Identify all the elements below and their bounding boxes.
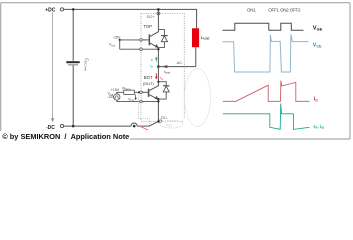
driver box dashed bottom edge — [141, 120, 184, 122]
terminal TOP gate — [140, 39, 143, 42]
svg-text:DC+: DC+ — [147, 14, 156, 19]
wire load bottom lead — [195, 47, 197, 66]
wire gate loop dashed drop — [149, 119, 151, 126]
node BOT diode top junction — [157, 81, 159, 83]
svg-text:VCE: VCE — [166, 123, 172, 128]
terminal TOP aux emitter — [140, 48, 143, 51]
annotation VCE loop ellipse — [185, 69, 211, 127]
svg-text:CDC-link: CDC-link — [84, 58, 90, 71]
trace VGE — [223, 23, 304, 30]
trace IC — [223, 81, 310, 102]
node TOP aux emitter junction — [157, 48, 159, 50]
wire TOP collector — [157, 9, 159, 31]
svg-text:BOT: BOT — [144, 75, 153, 80]
driver box dashed right edge — [183, 13, 185, 117]
terminal DC- — [159, 120, 162, 123]
svg-text:iF: iF — [151, 58, 154, 63]
node gate sense junction — [138, 91, 140, 93]
annotation VCE small ellipse — [160, 120, 183, 128]
terminal BOT aux emitter — [140, 100, 143, 103]
svg-text:ON1: ON1 — [247, 7, 257, 12]
frame left border — [0, 3, 2, 131]
frame bottom border — [130, 138, 350, 140]
svg-text:+15V: +15V — [111, 88, 120, 92]
svg-text:Iload: Iload — [164, 70, 170, 75]
svg-text:-DC: -DC — [46, 125, 55, 131]
arrow iG gate current (red) — [142, 126, 148, 129]
wire -DC rail to emitter — [137, 121, 158, 126]
frame right border — [349, 3, 351, 139]
wire VDC arrow line — [52, 13, 54, 121]
svg-text:OFF1: OFF1 — [268, 7, 279, 12]
svg-text:Lload: Lload — [201, 35, 210, 41]
trace -iF iR — [223, 104, 310, 130]
wire TOP driver loop — [119, 40, 121, 49]
node TOP driver output — [119, 39, 121, 41]
wire +DC rail — [64, 9, 197, 28]
node AC junction — [157, 65, 160, 68]
wire hop on -DC rail — [131, 123, 137, 126]
wire AC phase — [158, 66, 195, 68]
node junction top of CDC — [72, 8, 75, 11]
wire BOT emitter — [157, 99, 159, 121]
arrow IC (red, down) — [155, 73, 158, 79]
trace VCE — [223, 34, 309, 72]
svg-text:© by SEMIKRON / Application: © by SEMIKRON / Application Note — [2, 132, 129, 141]
driver box dashed top edge — [141, 12, 184, 14]
arrow Iload — [163, 65, 168, 68]
svg-text:Vout: Vout — [108, 92, 114, 97]
node BOT diode bottom junction — [157, 98, 159, 100]
wire TOP emitter return — [120, 48, 159, 50]
inductor Lload (red) — [192, 28, 199, 47]
capacitor CDC-link top lead — [72, 9, 74, 61]
current iF arrow — [155, 56, 158, 61]
node BOT emitter to DC- junction — [157, 120, 159, 122]
resistor RGext — [124, 90, 135, 94]
source pulse generator (BOT driver) — [114, 94, 120, 100]
driver box dashed left edge — [140, 13, 142, 121]
capacitor CDC-link plates — [66, 61, 79, 63]
svg-text:ON2: ON2 — [280, 7, 289, 12]
frame top border — [1, 2, 350, 4]
wire RGext to gate — [134, 91, 141, 93]
transistor BOT (IGBT) — [141, 86, 158, 100]
transistor TOP (IGBT) — [141, 32, 158, 48]
node junction rail/TOP — [157, 8, 160, 11]
svg-text:+DC: +DC — [45, 7, 56, 13]
svg-text:OFF2: OFF2 — [290, 7, 301, 12]
wire gate loop dashed horizontal — [138, 118, 149, 120]
wire TOP emitter — [157, 48, 159, 67]
arrow VGE measure — [134, 94, 136, 100]
capacitor CDC-link bottom lead — [72, 65, 74, 126]
wire gate loop dashed vertical — [137, 95, 139, 119]
wire BOT gate feed — [117, 92, 124, 94]
terminal DC+ — [157, 12, 160, 15]
wire BOT emitter return — [117, 100, 159, 101]
node junction bottom of CDC — [72, 125, 75, 128]
svg-text:VGE: VGE — [313, 25, 323, 31]
diode TOP freewheel — [158, 30, 167, 48]
svg-text:(DUT): (DUT) — [143, 81, 155, 86]
svg-text:DC-: DC- — [161, 115, 169, 120]
node junction on -DC rail — [133, 125, 136, 128]
terminal BOT gate — [140, 91, 143, 94]
wire BOT collector — [157, 67, 159, 86]
svg-text:AC: AC — [177, 60, 183, 65]
terminal -DC — [60, 125, 63, 128]
wire TOP gate feed — [120, 39, 141, 41]
diode BOT freewheel — [158, 82, 169, 99]
wire -DC rail — [64, 125, 131, 127]
node BOT aux emitter junction — [157, 100, 159, 102]
svg-text:TOP: TOP — [144, 24, 153, 29]
terminal +DC — [60, 8, 63, 11]
